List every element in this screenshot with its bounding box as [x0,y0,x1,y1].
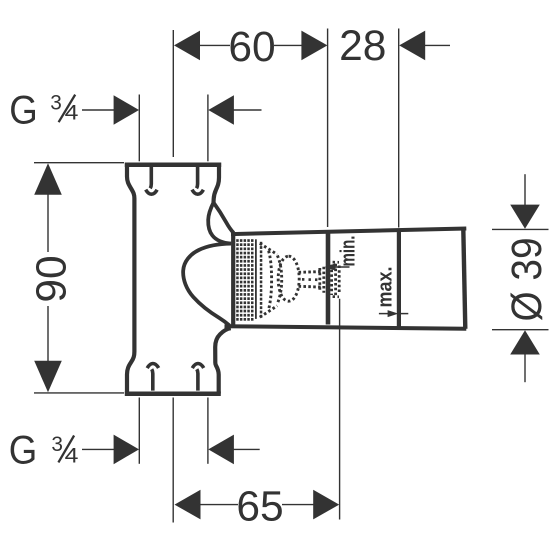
dimension 60 top: left arrow [174,31,200,61]
dimension 90: top extension line [34,162,124,164]
dimension 65: dimension lines [200,504,315,506]
G 3/4 bottom: label G [9,429,38,473]
dimension 65: right extension line [339,299,341,520]
dimension 65: left arrow [175,490,201,520]
cartridge: spray dotted ring [278,256,299,301]
dimension 90: bottom arrow pointing down [34,361,62,393]
dimension 60 top: right arrow [301,31,327,61]
G 3/4 top: left arrow pointing right [114,95,139,125]
dimension diameter 39: top extension line [492,228,549,230]
svg-text:G: G [9,89,38,133]
valve body: top flange edge [125,162,221,167]
cartridge: spray bell mouth dotted arc [269,251,272,310]
svg-text:65: 65 [236,483,283,530]
dimension 60 top: extension line at min plane [327,29,329,228]
svg-text:min.: min. [338,236,360,267]
svg-text:Ø 39: Ø 39 [504,238,550,322]
G 3/4 bottom: right arrow pointing left with tail [208,435,259,465]
cartridge: bottom edge [225,326,467,329]
valve body: bottom thread mark right [192,364,203,391]
cartridge: dotted line right of sleeve [260,242,263,318]
cartridge: spray bell bottom rim dotted [260,306,277,317]
dimension 90: top arrow pointing up [34,163,62,195]
G 3/4 top: fraction 3/4 [50,92,78,125]
dimension 65: right arrow [313,490,339,520]
G 3/4 bottom: fraction 3/4 [51,433,78,467]
cartridge: stippled wall band [236,239,253,321]
svg-text:4: 4 [65,102,79,125]
label min. rotated with leader arrow [325,236,360,271]
cartridge: spindle neck dotted outline [299,272,323,288]
dimension 90: value label 90 rotated [28,255,75,302]
cartridge: spindle end dotted knob [320,262,339,297]
label max. rotated with leader arrow [374,267,408,318]
svg-text:4: 4 [65,444,79,467]
dimension 28 top: extension line at max plane [398,29,400,228]
valve body: bottom thread mark left [147,364,158,391]
G 3/4 top: label G [9,89,38,133]
cartridge: spray second dotted arc [277,256,281,303]
svg-text:3: 3 [51,433,63,456]
dimension 90: dimension line segments [47,194,49,362]
valve body: upper right outline [214,163,220,203]
cartridge: right end cap edge [463,229,465,329]
dimension diameter 39: dimension line segments [524,174,526,382]
G 3/4 top: leader line [82,109,115,111]
cartridge: spray bell top rim dotted [260,243,277,254]
svg-text:90: 90 [28,255,75,302]
valve body: lower right outline with fillet to cartridge [215,328,231,393]
G 3/4 top: extension lines [139,95,208,162]
cartridge: left edge [231,234,235,326]
dimension 60 top: extension line at body axis [172,30,174,157]
dimension 90: bottom extension line [34,392,124,394]
cartridge: inner sleeve line [255,239,257,319]
G 3/4 bottom: extension lines [139,398,208,464]
valve body: top thread mark left [146,167,157,194]
dimension diameter 39: bottom arrow pointing up [510,330,540,354]
dimension 65: axis extension line [172,398,174,523]
dimension diameter 39: bottom extension line [492,329,549,331]
dimension diameter 39: top arrow pointing down [510,205,540,229]
svg-text:3: 3 [50,92,62,115]
svg-text:60: 60 [228,24,275,71]
svg-text:max.: max. [374,267,396,308]
valve body: top thread mark right [192,167,203,194]
dimension diameter 39: value label rotated [504,238,550,322]
cartridge: top edge [231,229,466,235]
dimension 28 top: value label 28 [339,23,386,70]
dimension 65: value label 65 [236,483,283,530]
cartridge: max depth line [397,230,401,326]
valve body: leaf contour left curve [208,203,231,244]
dimension 28 top: right arrow (outside) with tail [399,31,450,61]
svg-text:28: 28 [339,23,386,70]
dimension 60 top: value label 60 [228,24,275,71]
valve body: waist contour arc [183,244,231,326]
cartridge: min depth line [326,232,331,325]
valve body: leaf contour right curve [214,203,234,234]
valve body: left outline [127,163,134,394]
dimension 60 top: dimension lines [199,44,302,46]
svg-text:G: G [9,429,38,473]
G 3/4 top: right arrow pointing left with tail [208,95,261,125]
valve body: bottom flange edge [125,391,221,396]
G 3/4 bottom: left arrow pointing right [114,435,139,465]
G 3/4 bottom: leader line [82,448,115,450]
